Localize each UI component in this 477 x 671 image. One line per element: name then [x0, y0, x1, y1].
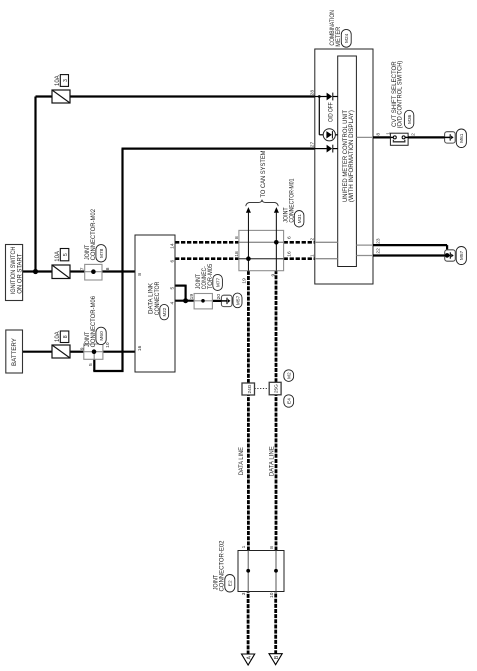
- fuse 8 (10A): [52, 345, 70, 358]
- arrow A (to next sheet): [242, 654, 255, 665]
- wire battery to fuse8 to joint connector M60 to DLC pin 16: [22, 351, 52, 353]
- diode on pin 28 line: [327, 93, 333, 101]
- svg-text:8: 8: [234, 236, 240, 239]
- E2 internal line B: [275, 551, 277, 592]
- wire meter pin27 internal: [315, 148, 327, 150]
- svg-text:2: 2: [411, 133, 417, 136]
- wire fuse5 to joint connector M78 to DLC pin 8: [70, 270, 85, 272]
- ground oval M61: [456, 129, 466, 148]
- wire meter pin28 internal: [315, 96, 327, 98]
- svg-text:1: 1: [386, 132, 392, 135]
- ground oval M57: [233, 293, 242, 308]
- svg-text:5: 5: [63, 253, 69, 256]
- svg-text:(O/D CONTROL SWITCH): (O/D CONTROL SWITCH): [396, 61, 403, 129]
- svg-text:28: 28: [310, 90, 316, 96]
- svg-text:24G: 24G: [247, 384, 252, 393]
- svg-text:M57: M57: [459, 251, 465, 261]
- unified meter control unit box: [338, 56, 357, 267]
- dotted connector link: [255, 388, 270, 390]
- connector oval M60: [96, 327, 106, 344]
- svg-text:6: 6: [169, 260, 175, 263]
- svg-text:16: 16: [137, 345, 143, 351]
- svg-text:8: 8: [269, 546, 275, 549]
- svg-text:BATTERY: BATTERY: [11, 337, 18, 366]
- connector oval M36: [404, 110, 413, 128]
- wire CAN-H M31 pin 6 to meter pin 2 (dashed): [284, 241, 315, 244]
- svg-text:14: 14: [169, 243, 175, 249]
- svg-text:7: 7: [80, 267, 86, 270]
- node ground junction: [445, 253, 450, 258]
- svg-text:(WITH INFORMATION DISPLAY): (WITH INFORMATION DISPLAY): [348, 110, 355, 202]
- joint connector M31 box: [239, 230, 284, 270]
- wire joint connector M77 pin 20 to ground M57: [212, 300, 221, 302]
- svg-text:O/D OFF: O/D OFF: [328, 102, 335, 122]
- svg-text:22: 22: [375, 248, 381, 254]
- svg-text:8: 8: [137, 273, 143, 276]
- connector oval M22: [160, 304, 169, 319]
- joint connector M78 box: [85, 264, 102, 280]
- svg-text:M2: M2: [287, 372, 293, 379]
- E2 internal line A: [247, 551, 249, 592]
- joint connector M60 box: [84, 344, 103, 359]
- svg-text:27: 27: [310, 141, 316, 147]
- svg-text:M22: M22: [162, 307, 167, 316]
- svg-text:DATA LINE: DATA LINE: [238, 447, 245, 475]
- connector oval E4: [284, 395, 294, 407]
- data link connector box M22: [135, 235, 175, 372]
- wire data line A: M31 pin 19 to in-line connector (dashed): [247, 271, 250, 383]
- node DLC pin4/pin5 junction: [183, 298, 188, 303]
- svg-text:6: 6: [287, 236, 293, 239]
- ignition switch source box: [6, 245, 23, 301]
- svg-text:M31: M31: [297, 214, 303, 224]
- battery source box: [6, 330, 23, 373]
- ground symbol M61: [445, 132, 456, 143]
- svg-text:3: 3: [63, 79, 69, 82]
- svg-text:10: 10: [105, 342, 111, 348]
- svg-text:1: 1: [241, 545, 247, 548]
- wire ignition feed from switch to fuse 5: [23, 270, 52, 272]
- fuse 3 (10A): [52, 90, 70, 103]
- node E2 line A: [246, 569, 250, 573]
- connector oval M77: [213, 274, 223, 290]
- node E2 line B: [274, 569, 278, 573]
- switch contacts: [390, 136, 393, 138]
- svg-text:5: 5: [88, 363, 94, 366]
- CVT shift selector switch box M36: [390, 133, 408, 145]
- M31 to-CAN branch line A: [247, 213, 249, 271]
- wire data line B: E2 pin 10 to arrow B (dashed): [274, 592, 277, 655]
- wire data line A: E2 pin 3 to arrow A (dashed): [247, 592, 250, 655]
- joint connector E2 box: [238, 551, 284, 592]
- wire O/D OFF lamp branch: [318, 97, 320, 135]
- combination meter outer box M24: [315, 49, 373, 284]
- wire DLC pin 4 to joint connector M77: [175, 300, 194, 302]
- svg-text:10: 10: [269, 592, 275, 598]
- connector oval E2: [225, 575, 235, 593]
- node ignition branch junction: [33, 269, 38, 274]
- connector oval M31: [294, 211, 304, 228]
- wire meter pin2 internal gray: [315, 241, 338, 243]
- svg-text:E2: E2: [228, 580, 234, 586]
- M31 internal CAN-H line: [239, 241, 284, 243]
- wire meter pin8 to CVT switch: [373, 136, 390, 138]
- arrow to CAN system A: [246, 207, 251, 213]
- svg-text:9: 9: [271, 273, 277, 276]
- wire DLC pin 5 jog: [175, 285, 186, 287]
- svg-text:TO CAN SYSTEM: TO CAN SYSTEM: [260, 151, 267, 198]
- svg-text:16: 16: [287, 251, 293, 257]
- arrow B (to next sheet): [269, 654, 282, 665]
- connector oval M24: [341, 29, 351, 47]
- node O/D OFF branch: [318, 95, 321, 98]
- joint connector M77 box: [194, 294, 212, 309]
- wire meter pin8 internal gray: [356, 136, 373, 138]
- svg-text:E4: E4: [287, 398, 293, 404]
- M31 internal CAN-L line: [239, 258, 284, 260]
- wire CVT switch to ground: [408, 136, 445, 138]
- svg-text:5: 5: [169, 287, 175, 290]
- fuse 5 (10A): [52, 265, 70, 279]
- svg-text:18: 18: [234, 251, 240, 257]
- svg-text:ON OR START: ON OR START: [16, 254, 23, 294]
- arrow to CAN system B: [274, 207, 279, 213]
- svg-text:25G: 25G: [274, 384, 279, 393]
- brace to CAN system: [246, 200, 278, 207]
- wire meter pin 27 drop: [122, 147, 315, 149]
- M31 to-CAN branch line B: [275, 213, 277, 271]
- svg-text:M60: M60: [99, 331, 105, 341]
- svg-text:8: 8: [105, 267, 111, 270]
- wire CAN-H DLC pin14 to joint connector M31 pin 8 (shielded dashed): [175, 241, 239, 244]
- svg-text:2: 2: [310, 238, 316, 241]
- O/D OFF indicator LED: [323, 129, 335, 141]
- wire data line A: in-line connector to joint connector E2 (dashed): [247, 395, 250, 551]
- node M31 junction B: [274, 240, 279, 245]
- svg-text:1: 1: [310, 254, 316, 257]
- svg-text:M78: M78: [99, 248, 105, 258]
- svg-text:M61: M61: [459, 133, 465, 143]
- wire meter pin23 to ground: [373, 244, 447, 246]
- svg-text:4: 4: [169, 302, 175, 305]
- node M31 junction A: [246, 256, 251, 261]
- wire data line B: M31 pin 9 to in-line connector (dashed): [275, 271, 278, 383]
- wire meter pin23 internal gray: [356, 244, 373, 246]
- wire meter pin22 internal gray: [356, 255, 373, 257]
- diode on pin 27 line: [327, 145, 333, 153]
- wire CAN-L DLC pin6 to M31 pin 18 (dashed): [175, 257, 239, 260]
- ground oval M57: [456, 247, 466, 265]
- svg-text:M36: M36: [407, 114, 413, 124]
- wire branch to fuse 3 / meter pin 28: [34, 97, 36, 272]
- ground symbol below M77: [221, 295, 232, 306]
- svg-text:3: 3: [241, 592, 247, 595]
- svg-text:19: 19: [242, 278, 248, 284]
- svg-text:M57: M57: [235, 295, 241, 305]
- svg-text:M24: M24: [344, 33, 350, 43]
- svg-text:8: 8: [63, 335, 69, 338]
- wire meter pin1 internal gray: [315, 258, 338, 260]
- wire fuse3 to combination meter pin 28: [36, 95, 53, 97]
- wire meter pin22 to ground: [373, 254, 445, 256]
- wire joint connector M60 pin 5 to meter pin 27: [93, 359, 95, 371]
- wire CAN-L M31 pin 16 to meter pin 1 (dashed): [284, 257, 315, 260]
- svg-text:19: 19: [189, 294, 195, 300]
- ground symbol M57 (meter): [445, 250, 456, 261]
- svg-text:8: 8: [375, 133, 381, 136]
- in-line connector box (line A): [242, 383, 255, 395]
- svg-text:23: 23: [375, 238, 381, 244]
- svg-text:M77: M77: [215, 277, 221, 287]
- connector oval M2: [284, 370, 294, 382]
- wire data line B: in-line connector to E2 (dashed): [275, 395, 278, 551]
- connector oval M78: [96, 245, 106, 262]
- in-line connector box (line B): [269, 382, 281, 395]
- svg-text:DATA LINE: DATA LINE: [269, 446, 276, 476]
